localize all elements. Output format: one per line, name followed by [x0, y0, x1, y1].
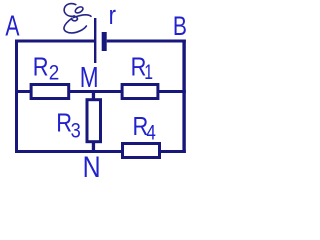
wire bottom horizontal [15, 150, 186, 153]
svg-text:N: N [83, 150, 101, 179]
svg-text:R: R [33, 53, 49, 82]
svg-text:1: 1 [144, 60, 153, 84]
battery short thick plate (EMF negative) [102, 32, 107, 51]
resistor R3 [87, 100, 101, 142]
svg-text:M: M [80, 60, 99, 93]
svg-text:B: B [173, 11, 187, 41]
svg-text:A: A [5, 11, 19, 43]
battery long plate (EMF positive) [94, 18, 96, 63]
resistor R4 [123, 144, 160, 158]
svg-text:r: r [109, 1, 116, 30]
wire top right segment (battery to B side) [107, 40, 186, 43]
wire left vertical [15, 40, 18, 154]
wire R3 vertical stub [92, 90, 95, 151]
EMF script E symbol [64, 4, 91, 33]
wire right vertical [182, 40, 185, 154]
resistor R2 [31, 85, 69, 99]
resistor R1 [122, 85, 158, 99]
svg-text:4: 4 [146, 122, 156, 145]
wire middle horizontal [15, 90, 186, 93]
wire top left segment (A side to battery) [15, 40, 95, 43]
svg-text:3: 3 [71, 119, 81, 143]
svg-text:2: 2 [49, 62, 60, 85]
svg-text:R: R [56, 109, 72, 138]
